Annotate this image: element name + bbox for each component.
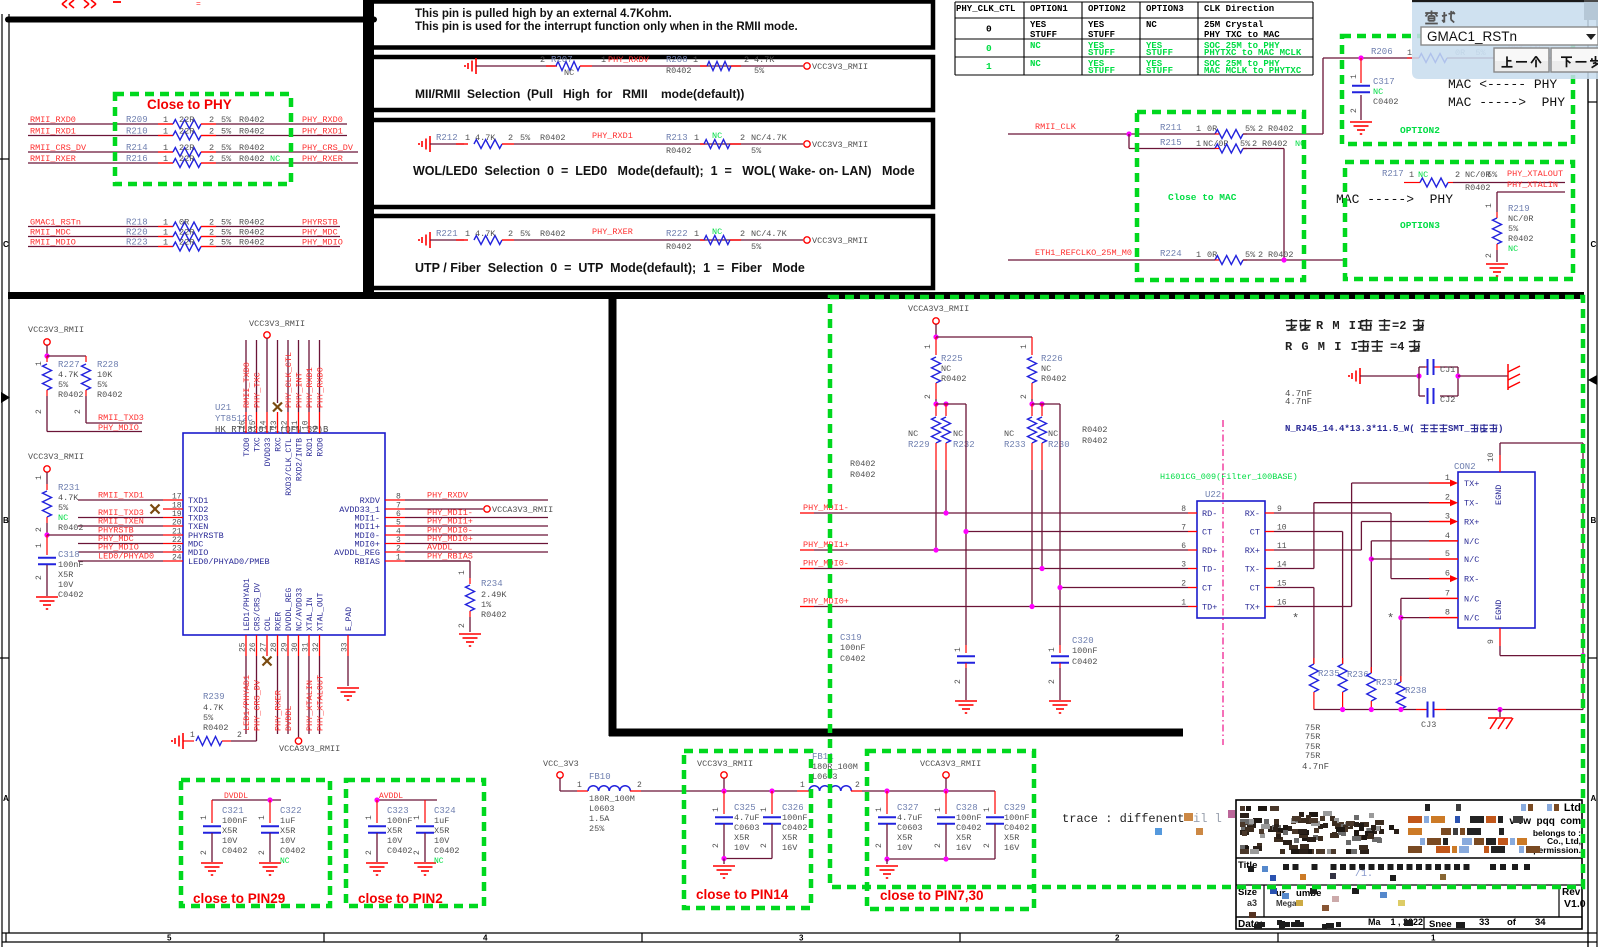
svg-text:R0402: R0402 (1465, 183, 1491, 193)
svg-text:26: 26 (249, 642, 258, 652)
svg-text:RMII_TXD1: RMII_TXD1 (98, 491, 144, 501)
svg-text:R0402: R0402 (239, 238, 265, 248)
svg-text:1: 1 (1445, 473, 1450, 483)
svg-text:PHY_XTALIN: PHY_XTALIN (305, 680, 315, 731)
svg-text:X5R: X5R (222, 826, 237, 836)
svg-text:X5R: X5R (280, 826, 295, 836)
svg-text:VCCA3V3_RMII: VCCA3V3_RMII (920, 759, 981, 769)
svg-text:PHY_RXER: PHY_RXER (592, 227, 633, 237)
svg-text:R223: R223 (126, 238, 148, 248)
svg-text:7: 7 (1445, 588, 1450, 598)
svg-text:X5R: X5R (734, 833, 749, 843)
svg-text:25: 25 (239, 642, 248, 652)
svg-text:R226: R226 (1041, 354, 1063, 364)
svg-text:1: 1 (986, 61, 992, 72)
svg-text:1: 1 (163, 143, 168, 153)
svg-text:permission.: permission. (1533, 845, 1581, 855)
svg-text:1: 1 (760, 807, 769, 812)
svg-text:C322: C322 (280, 806, 302, 816)
svg-text:2: 2 (35, 575, 44, 580)
svg-text:2: 2 (1258, 250, 1263, 260)
svg-text:RXER: RXER (275, 612, 284, 631)
svg-text:RMII_MDC: RMII_MDC (30, 228, 71, 238)
svg-text:1: 1 (163, 115, 168, 125)
svg-text:VCCA3V3_RMII: VCCA3V3_RMII (908, 304, 969, 314)
svg-text:C0603: C0603 (897, 823, 923, 833)
svg-text:Snee: Snee (1429, 919, 1452, 930)
svg-text:X5R: X5R (956, 833, 971, 843)
svg-text:X5R: X5R (1004, 833, 1019, 843)
svg-text:TX-: TX- (1245, 565, 1260, 575)
svg-text:NC: NC (1373, 87, 1383, 97)
svg-text:1: 1 (163, 228, 168, 238)
svg-text:4.7uF: 4.7uF (734, 813, 760, 823)
svg-text:OPTION3: OPTION3 (1400, 220, 1440, 231)
svg-text:1uF: 1uF (280, 816, 295, 826)
svg-text:1: 1 (694, 133, 699, 143)
svg-text:100nF: 100nF (956, 813, 982, 823)
svg-text:R234: R234 (481, 579, 503, 589)
svg-text:STUFF: STUFF (1088, 30, 1115, 40)
svg-text:100nF: 100nF (1072, 646, 1098, 656)
svg-text:2: 2 (74, 409, 83, 414)
svg-text:10: 10 (1487, 452, 1496, 462)
svg-text:R0402: R0402 (666, 146, 692, 156)
svg-text:R232: R232 (953, 440, 975, 450)
svg-text:8: 8 (1181, 505, 1186, 514)
svg-text:2: 2 (508, 229, 513, 239)
svg-text:CJ1: CJ1 (1440, 365, 1455, 375)
svg-text:PHY_XTALOUT: PHY_XTALOUT (1507, 169, 1563, 179)
svg-text:2: 2 (1115, 934, 1120, 943)
svg-text:TX-: TX- (1464, 499, 1479, 509)
svg-text:R0402: R0402 (58, 390, 84, 400)
svg-text:DVDDL: DVDDL (284, 705, 294, 731)
svg-text:PHY_CRS_DV: PHY_CRS_DV (253, 679, 263, 731)
svg-text:RX-: RX- (1464, 575, 1479, 585)
svg-text:5%: 5% (58, 503, 69, 513)
svg-text:NC: NC (280, 857, 290, 866)
svg-text:1%: 1% (481, 600, 492, 610)
svg-text:RXD2/INTB: RXD2/INTB (296, 438, 305, 481)
svg-text:R213: R213 (666, 133, 688, 143)
svg-text:5: 5 (396, 519, 401, 528)
svg-text:N/C: N/C (1464, 614, 1479, 624)
svg-text:2.49K: 2.49K (481, 590, 507, 600)
svg-text:4.7K: 4.7K (58, 493, 79, 503)
svg-text:1: 1 (465, 229, 470, 239)
svg-text:CRS/CRS_DV: CRS/CRS_DV (254, 583, 263, 631)
svg-text:16V: 16V (782, 843, 798, 853)
svg-text:8: 8 (396, 493, 401, 502)
svg-text:2: 2 (712, 843, 721, 848)
svg-text:4.7K: 4.7K (475, 133, 496, 143)
svg-text:PHY_MDI0+: PHY_MDI0+ (803, 597, 849, 607)
svg-text:PHY_MDIO: PHY_MDIO (98, 423, 139, 433)
svg-text:VCC3V3_RMII: VCC3V3_RMII (812, 140, 868, 150)
svg-text:R229: R229 (908, 440, 930, 450)
svg-text:NC: NC (58, 513, 68, 523)
svg-text:R239: R239 (203, 692, 225, 702)
svg-text:NC: NC (1030, 41, 1041, 51)
svg-text:2: 2 (637, 781, 642, 790)
svg-text:R0402: R0402 (850, 459, 876, 469)
svg-text:9: 9 (1487, 639, 1496, 644)
svg-text:2: 2 (760, 843, 769, 848)
svg-text:1: 1 (258, 815, 267, 820)
svg-text:LED1/PHYAD1: LED1/PHYAD1 (243, 578, 252, 631)
svg-text:1: 1 (163, 238, 168, 248)
svg-text:4.7uF: 4.7uF (897, 813, 923, 823)
svg-text:2: 2 (1455, 170, 1460, 180)
svg-text:TD+: TD+ (1202, 603, 1217, 613)
svg-text:N/C: N/C (1464, 537, 1479, 547)
svg-text:PHY_RXER: PHY_RXER (302, 154, 343, 164)
svg-text:R0402: R0402 (239, 218, 265, 228)
svg-text:RMII_TXD3: RMII_TXD3 (98, 413, 144, 423)
svg-text:XTAL_IN: XTAL_IN (306, 597, 315, 631)
svg-text:TXD0: TXD0 (243, 437, 252, 456)
svg-text:MII/RMII Selection (Pull H: MII/RMII Selection (Pull High for RMII m… (415, 87, 744, 101)
svg-text:PHY_RXDV: PHY_RXDV (608, 55, 650, 65)
svg-text:YT8512C: YT8512C (215, 414, 253, 424)
svg-text:1: 1 (35, 543, 44, 548)
svg-text:R0402: R0402 (239, 154, 265, 164)
svg-text:MAC -----> PHY: MAC -----> PHY (1448, 95, 1565, 110)
svg-text:R228: R228 (97, 360, 119, 370)
svg-text:11: 11 (291, 420, 300, 430)
svg-text:C0402: C0402 (840, 654, 866, 664)
svg-text:3: 3 (799, 934, 804, 943)
svg-text:RMII_TXD0: RMII_TXD0 (242, 362, 252, 408)
svg-text:RXD0: RXD0 (317, 437, 326, 456)
svg-text:X5R: X5R (782, 833, 797, 843)
svg-text:RXD3/CLK_CTL: RXD3/CLK_CTL (285, 438, 294, 496)
svg-text:1: 1 (800, 781, 805, 790)
svg-text:R0402: R0402 (850, 470, 876, 480)
svg-text:C323: C323 (387, 806, 409, 816)
svg-text:X5R: X5R (897, 833, 912, 843)
svg-text:of: of (1507, 917, 1517, 928)
svg-text:R212: R212 (436, 133, 458, 143)
svg-text:TXC: TXC (254, 437, 263, 452)
svg-text:C321: C321 (222, 806, 244, 816)
svg-text:Ltd: Ltd (1564, 802, 1581, 814)
svg-text:15: 15 (249, 420, 258, 430)
svg-text:1: 1 (35, 475, 44, 480)
svg-text:OPTION2: OPTION2 (1088, 4, 1126, 14)
svg-text:33: 33 (341, 642, 350, 652)
svg-text:1: 1 (1350, 74, 1359, 79)
svg-text:2: 2 (209, 115, 214, 125)
svg-text:CT: CT (1250, 584, 1260, 594)
svg-text:Ma 1 , 2022: Ma 1 , 2022 (1368, 917, 1423, 927)
svg-text:1: 1 (1196, 139, 1201, 149)
svg-text:R0402: R0402 (239, 115, 265, 125)
svg-text:2: 2 (744, 55, 749, 65)
svg-text:75R: 75R (1305, 751, 1320, 761)
svg-text:1: 1 (1407, 48, 1412, 58)
svg-text:R0402: R0402 (58, 523, 84, 533)
svg-text:C328: C328 (956, 803, 978, 813)
svg-text:2: 2 (209, 218, 214, 228)
svg-text:close to PIN7,30: close to PIN7,30 (880, 888, 984, 903)
svg-text:VCC3V3_RMII: VCC3V3_RMII (697, 759, 753, 769)
svg-text:GMAC1_RSTn: GMAC1_RSTn (1427, 29, 1517, 44)
svg-text:28: 28 (270, 642, 279, 652)
svg-text:32: 32 (312, 642, 321, 652)
svg-text:U21: U21 (215, 403, 231, 413)
svg-text:2: 2 (983, 843, 992, 848)
svg-text:2: 2 (1445, 493, 1450, 503)
svg-text:X5R: X5R (58, 570, 73, 580)
svg-text:3: 3 (1445, 512, 1450, 522)
svg-text:2: 2 (258, 850, 267, 855)
svg-text:2: 2 (1181, 580, 1186, 589)
svg-text:NC/0R: NC/0R (1508, 214, 1534, 224)
svg-text:1uF: 1uF (434, 816, 449, 826)
svg-text:trace : diffenent: trace : diffenent (1062, 812, 1184, 826)
svg-text:NC: NC (953, 429, 963, 439)
svg-text:LED1/PHYAD1: LED1/PHYAD1 (242, 675, 252, 731)
svg-text:=: = (196, 0, 201, 9)
svg-text:CJ3: CJ3 (1421, 720, 1436, 730)
svg-text:OPTION2: OPTION2 (1400, 125, 1440, 136)
svg-text:CT: CT (1202, 584, 1212, 594)
svg-text:MAC <----- PHY: MAC <----- PHY (1448, 77, 1557, 92)
svg-text:R M II: R M II (1316, 319, 1365, 333)
svg-text:C0402: C0402 (58, 590, 84, 600)
svg-text:TX+: TX+ (1245, 603, 1260, 613)
svg-text:100nF: 100nF (222, 816, 248, 826)
svg-text:5%: 5% (221, 228, 232, 238)
svg-text:PHY_MDI1+: PHY_MDI1+ (803, 540, 849, 550)
svg-text:Close to PHY: Close to PHY (147, 97, 232, 112)
svg-text:5%: 5% (1508, 224, 1519, 234)
svg-text:7: 7 (1181, 524, 1186, 533)
svg-text:22R: 22R (179, 143, 194, 153)
svg-text:12: 12 (281, 420, 290, 430)
svg-text:OPTION1: OPTION1 (1030, 4, 1068, 14)
svg-text:1: 1 (1431, 934, 1436, 943)
svg-text:1: 1 (413, 815, 422, 820)
svg-text:R0402: R0402 (1082, 425, 1108, 435)
svg-text:2: 2 (855, 781, 860, 790)
svg-text:VCC3V3_RMII: VCC3V3_RMII (812, 62, 868, 72)
svg-text:CT: CT (1202, 528, 1212, 538)
svg-text:R0402: R0402 (666, 242, 692, 252)
svg-text:RD+: RD+ (1202, 546, 1217, 556)
svg-text:V1.0: V1.0 (1564, 898, 1586, 910)
svg-text:2: 2 (209, 228, 214, 238)
svg-text:5%: 5% (221, 115, 232, 125)
svg-text:a3: a3 (1247, 898, 1257, 908)
svg-text:Close to MAC: Close to MAC (1168, 192, 1237, 203)
svg-text:R208: R208 (666, 55, 688, 65)
svg-text:4.7K: 4.7K (754, 55, 775, 65)
svg-text:180R_100M: 180R_100M (812, 762, 858, 772)
svg-text:R215: R215 (1160, 138, 1182, 148)
svg-text:C0402: C0402 (387, 846, 413, 856)
svg-text:SMT_: SMT_ (1448, 424, 1470, 434)
svg-text:RMII_RXD0: RMII_RXD0 (30, 115, 76, 125)
svg-text:31: 31 (302, 642, 311, 652)
svg-text:NC: NC (1048, 429, 1058, 439)
svg-text:2: 2 (740, 133, 745, 143)
svg-text:22R: 22R (179, 238, 194, 248)
svg-text:13: 13 (270, 420, 279, 430)
svg-text:2: 2 (1020, 394, 1029, 399)
svg-text:10K: 10K (97, 370, 113, 380)
svg-text:1: 1 (1196, 124, 1201, 134)
svg-text:1: 1 (200, 815, 209, 820)
svg-text:1: 1 (1181, 599, 1186, 608)
svg-text:34: 34 (1535, 917, 1546, 928)
svg-text:R225: R225 (941, 354, 963, 364)
svg-text:R238: R238 (1405, 686, 1427, 696)
svg-text:5%: 5% (221, 127, 232, 137)
svg-text:22R: 22R (179, 228, 194, 238)
svg-text:N_RJ45_14.4*13.3*11.5_W(: N_RJ45_14.4*13.3*11.5_W( (1285, 424, 1415, 434)
svg-text:2: 2 (875, 843, 884, 848)
svg-text:5%: 5% (520, 229, 531, 239)
svg-text:22R: 22R (179, 127, 194, 137)
svg-text:1: 1 (163, 127, 168, 137)
svg-text:PHY_TXC: PHY_TXC (253, 372, 263, 408)
svg-text:A: A (3, 794, 9, 803)
svg-text:5%: 5% (751, 146, 762, 156)
svg-text:10V: 10V (58, 580, 74, 590)
svg-text:22R: 22R (179, 154, 194, 164)
svg-text:MAC MCLK to PHYTXC: MAC MCLK to PHYTXC (1204, 66, 1302, 76)
svg-text:DVDDL_REG: DVDDL_REG (285, 588, 294, 631)
svg-text:2: 2 (458, 623, 467, 628)
svg-text:R0402: R0402 (1508, 234, 1534, 244)
svg-text:RD-: RD- (1202, 509, 1217, 519)
svg-text:*: * (1387, 612, 1394, 626)
svg-text:STUFF: STUFF (1146, 48, 1173, 58)
svg-text:5%: 5% (1240, 139, 1251, 149)
svg-text:2: 2 (209, 154, 214, 164)
svg-text:VCC3V3_RMII: VCC3V3_RMII (28, 452, 84, 462)
svg-text:10V: 10V (280, 836, 296, 846)
svg-text:NC: NC (270, 154, 280, 164)
svg-text:4.7K: 4.7K (58, 370, 79, 380)
svg-text:A: A (1591, 794, 1597, 803)
svg-text:22R: 22R (179, 115, 194, 125)
svg-text:PHY_RXDV: PHY_RXDV (427, 491, 469, 501)
svg-text:C: C (1591, 240, 1597, 249)
svg-text:25M Crystal: 25M Crystal (1204, 20, 1264, 30)
svg-text:C324: C324 (434, 806, 456, 816)
svg-text:NC: NC (712, 131, 722, 141)
svg-text:5%: 5% (97, 380, 108, 390)
svg-text:VCCA3V3_RMII: VCCA3V3_RMII (492, 505, 553, 515)
svg-text:1: 1 (396, 554, 401, 563)
svg-text:NC/AVDD33: NC/AVDD33 (296, 588, 305, 631)
svg-text:GMAC1_RSTn: GMAC1_RSTn (30, 218, 81, 228)
svg-text:2: 2 (540, 55, 545, 65)
svg-text:R231: R231 (58, 483, 80, 493)
svg-text:This pin is pulled high by an: This pin is pulled high by an external 4… (415, 8, 672, 20)
svg-text:RMII_RXER: RMII_RXER (30, 154, 76, 164)
svg-text:100nF: 100nF (782, 813, 808, 823)
svg-text:DVDD33: DVDD33 (264, 437, 273, 466)
svg-text:R220: R220 (126, 228, 148, 238)
svg-text:B: B (1591, 516, 1597, 525)
svg-text:4: 4 (483, 934, 488, 943)
svg-text:PHY_MDI1-: PHY_MDI1- (803, 503, 849, 513)
svg-text:PHY_INT: PHY_INT (295, 372, 305, 408)
svg-text:RBIAS: RBIAS (354, 557, 380, 567)
svg-text:9: 9 (312, 425, 321, 430)
svg-text:1: 1 (577, 781, 582, 790)
svg-text:VCCA3V3_RMII: VCCA3V3_RMII (279, 744, 340, 754)
svg-text:C320: C320 (1072, 636, 1094, 646)
svg-text:75R: 75R (1305, 732, 1320, 742)
svg-text:NC: NC (712, 227, 722, 237)
svg-text:C0402: C0402 (1072, 657, 1098, 667)
svg-text:RMII_CRS_DV: RMII_CRS_DV (30, 143, 87, 153)
svg-text:2: 2 (35, 409, 44, 414)
svg-text:PHY_MDC: PHY_MDC (302, 228, 338, 238)
svg-text:5: 5 (1445, 549, 1450, 559)
svg-text:R0402: R0402 (239, 228, 265, 238)
svg-text:TD-: TD- (1202, 565, 1217, 575)
svg-text:2: 2 (924, 394, 933, 399)
svg-text:1: 1 (1020, 344, 1029, 349)
svg-text:16V: 16V (956, 843, 972, 853)
svg-text:3: 3 (1181, 561, 1186, 570)
svg-text:30: 30 (291, 642, 300, 652)
svg-text:1: 1 (190, 731, 195, 740)
svg-text:N/C: N/C (1464, 594, 1479, 604)
svg-text:1: 1 (458, 570, 467, 575)
svg-text:Title: Title (1238, 860, 1257, 871)
svg-text:2: 2 (209, 127, 214, 137)
svg-text:CT: CT (1250, 528, 1260, 538)
svg-text:NC: NC (564, 68, 574, 78)
svg-text:C0402: C0402 (1373, 97, 1399, 107)
svg-text:R0402: R0402 (1041, 374, 1067, 384)
svg-text:100nF: 100nF (387, 816, 413, 826)
svg-text:YES: YES (1088, 20, 1105, 30)
svg-text:R0402: R0402 (666, 66, 692, 76)
svg-text:PHY_XTALIN: PHY_XTALIN (1507, 180, 1558, 190)
svg-text:VCC3V3_RMII: VCC3V3_RMII (249, 319, 305, 329)
svg-text:H1601CG_009(Filter_100BASE): H1601CG_009(Filter_100BASE) (1160, 472, 1298, 482)
svg-text:4: 4 (1445, 531, 1450, 541)
svg-text:20: 20 (172, 519, 182, 528)
svg-text:C0402: C0402 (956, 823, 982, 833)
svg-text:C0402: C0402 (222, 846, 248, 856)
svg-text:2: 2 (1252, 139, 1257, 149)
svg-text:8: 8 (1445, 608, 1450, 618)
svg-text:5%: 5% (520, 133, 531, 143)
svg-text:1: 1 (601, 55, 606, 65)
svg-text:NC: NC (434, 857, 444, 866)
svg-text:R211: R211 (1160, 123, 1182, 133)
svg-text:=4: =4 (1390, 340, 1404, 354)
svg-text:R0402: R0402 (540, 229, 566, 239)
svg-text:C319: C319 (840, 633, 862, 643)
svg-text:B: B (3, 516, 9, 525)
svg-text:This pin is used for the inter: This pin is used for the interrupt funct… (415, 21, 798, 33)
svg-text:*: * (1292, 612, 1299, 626)
svg-text:PHY_RXD1: PHY_RXD1 (302, 127, 343, 137)
svg-text:RX-: RX- (1245, 509, 1260, 519)
svg-text:CLK Direction: CLK Direction (1204, 4, 1274, 14)
